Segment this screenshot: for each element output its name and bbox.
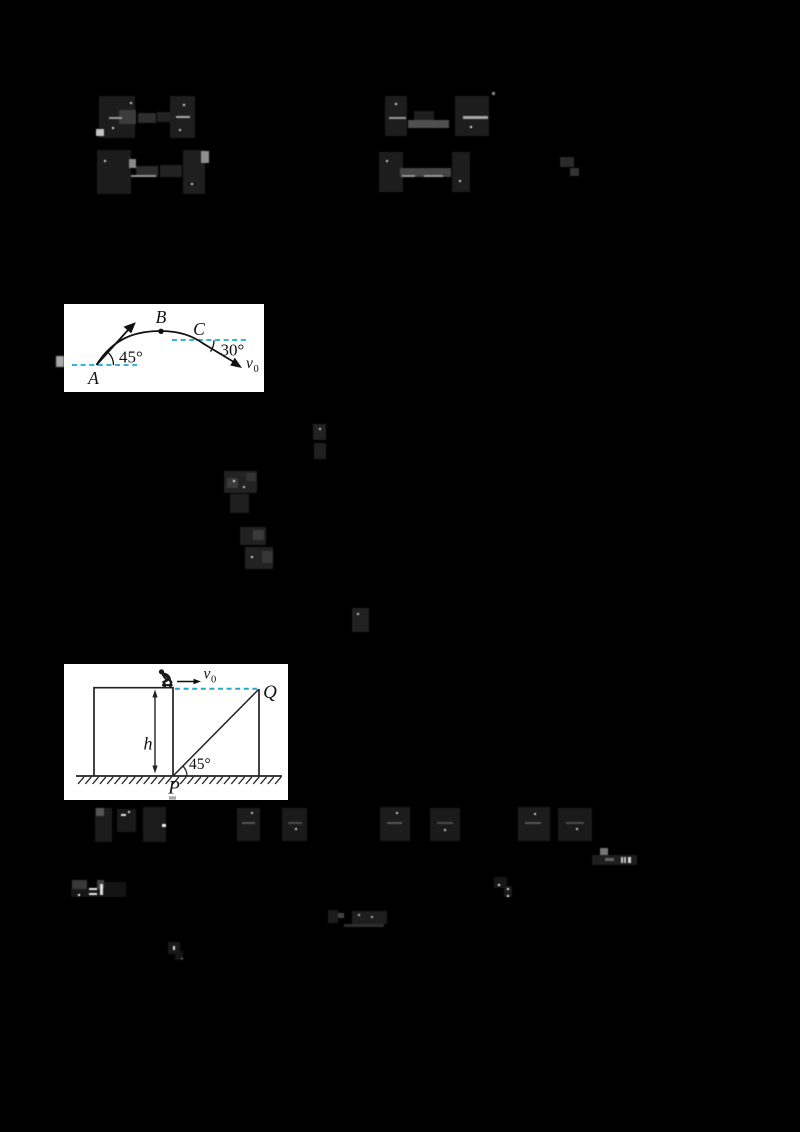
- svg-text:B: B: [156, 307, 167, 327]
- tangent arrow at A: [97, 330, 129, 366]
- ground line: [76, 775, 282, 777]
- svg-text:h: h: [144, 734, 153, 754]
- tiny cluster mid-right with dots: [494, 877, 507, 888]
- tiny bottom-left cluster: [168, 942, 180, 954]
- option D: [518, 807, 550, 841]
- svg-text:C: C: [193, 319, 205, 339]
- skater figure: [159, 669, 171, 685]
- dashed level line to Q: [175, 688, 257, 690]
- artifact gray square under P: [169, 796, 176, 799]
- svg-text:0: 0: [211, 675, 216, 686]
- skateboard: [162, 684, 173, 686]
- center formula y = 10 sqrt3: [328, 910, 338, 923]
- 45 deg arc at P: [183, 766, 187, 776]
- option C: [380, 807, 410, 841]
- right pole: [258, 689, 260, 776]
- 30 deg arc at C: [211, 340, 215, 351]
- svg-text:30°: 30°: [221, 341, 245, 360]
- formula 4 (second row right): [379, 152, 403, 192]
- svg-text:P: P: [167, 778, 180, 799]
- svg-text:v: v: [246, 355, 253, 372]
- building outline: [94, 688, 173, 776]
- svg-text:45°: 45°: [119, 348, 143, 367]
- formula 2 (top-right): fraction pair: [385, 96, 407, 136]
- svg-text:v: v: [204, 666, 211, 683]
- dashed level line at A: [72, 364, 137, 366]
- dashed level line at C: [172, 339, 248, 341]
- 45 deg arc at A: [109, 353, 114, 365]
- svg-text:Q: Q: [263, 682, 277, 703]
- cluster right: vy = ...: [592, 855, 637, 865]
- option A: [95, 808, 112, 842]
- svg-text:45°: 45°: [189, 756, 211, 773]
- apex dot B: [158, 329, 163, 334]
- trajectory curve: [97, 331, 236, 365]
- ground hatching: [78, 777, 281, 784]
- formula 3 (second row left): [97, 150, 131, 194]
- v0 arrow: [177, 681, 197, 683]
- svg-text:0: 0: [254, 364, 259, 375]
- artifact patch left of figure 1: [56, 356, 64, 367]
- cluster left: h = 1 ...: [71, 889, 126, 897]
- svg-text:A: A: [87, 368, 99, 388]
- option B: [237, 808, 260, 841]
- trajectory arrowhead (v0 at C): [230, 358, 242, 368]
- h double arrow: [154, 694, 156, 770]
- incline P to Q: [173, 690, 259, 777]
- formula 1 (top-left): fraction pair: [99, 96, 135, 138]
